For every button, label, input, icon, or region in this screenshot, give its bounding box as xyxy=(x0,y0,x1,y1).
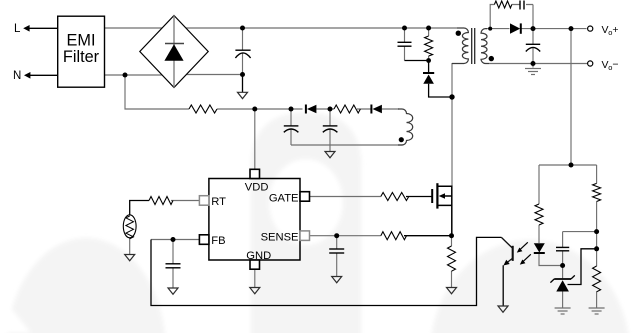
opto LED resistor xyxy=(535,204,543,225)
node vdd cap1 xyxy=(289,107,294,112)
wire EMI to bridge top xyxy=(105,27,163,29)
bridge rectifier xyxy=(140,16,208,88)
svg-text:EMI: EMI xyxy=(67,32,96,50)
sense line resistor xyxy=(381,232,407,240)
wire clamp cap leads xyxy=(404,28,406,61)
controller IC box xyxy=(209,179,300,261)
ground (sense resistor) xyxy=(447,288,457,294)
node TL431 cathode xyxy=(560,263,565,268)
wire EMI to bridge bottom xyxy=(105,74,162,76)
aux polarity dot xyxy=(399,137,404,142)
clamp capacitor xyxy=(398,42,412,46)
earth ground (output cap) xyxy=(525,69,541,75)
ground (opto emitter) xyxy=(498,306,508,312)
wire gate xyxy=(310,196,381,198)
wire out cap leads xyxy=(532,29,534,68)
ground (FB cap) xyxy=(168,288,178,294)
wire RT xyxy=(130,201,200,255)
wire secondary top xyxy=(486,28,510,30)
svg-text:SENSE: SENSE xyxy=(261,231,299,243)
TL431 shunt regulator xyxy=(550,275,574,282)
wire feedback top rail xyxy=(539,164,597,166)
wire bridge bottom to bulk cap xyxy=(186,74,242,76)
output capacitor xyxy=(526,44,540,51)
wire RT resistor to thermistor xyxy=(130,201,149,215)
aux winding xyxy=(398,109,413,145)
wire snubber xyxy=(490,5,533,29)
aux diode D2 xyxy=(370,105,372,114)
svg-text:+: + xyxy=(612,24,618,36)
aux resistor xyxy=(334,105,360,113)
svg-text:FB: FB xyxy=(211,235,225,247)
wire bulk cap leads xyxy=(242,28,244,75)
EMI filter box xyxy=(58,16,105,87)
ground (sense cap) xyxy=(332,277,342,283)
wire FB loop to opto collector xyxy=(151,237,501,305)
divider resistor upper xyxy=(593,183,601,201)
ground (IC GND pin) xyxy=(250,288,260,294)
wire Vo- rail xyxy=(489,63,587,65)
earth ground (TL431) xyxy=(555,308,571,314)
current sense resistor xyxy=(448,246,456,271)
svg-text:N: N xyxy=(13,70,21,82)
transformer core xyxy=(472,28,475,64)
sense filter capacitor xyxy=(329,249,344,253)
svg-text:−: − xyxy=(612,58,618,70)
node N-startup xyxy=(123,73,128,78)
wire VDD drop xyxy=(254,109,256,169)
wire comp cap xyxy=(563,232,597,266)
primary polarity dot xyxy=(456,31,461,36)
pin GATE xyxy=(300,192,310,202)
node feedback rail xyxy=(569,163,574,168)
svg-text:Filter: Filter xyxy=(63,48,100,66)
terminal Vo- xyxy=(588,61,593,66)
svg-text:GND: GND xyxy=(246,250,271,262)
pin SENSE xyxy=(300,231,310,241)
wire divider xyxy=(596,165,598,308)
secondary polarity dot xyxy=(489,56,494,61)
RT thermistor xyxy=(123,215,136,238)
svg-text:VDD: VDD xyxy=(245,182,269,194)
wire bridge output top rail xyxy=(186,27,457,29)
ground (bulk cap) xyxy=(238,92,248,98)
ground (thermistor) xyxy=(125,255,135,261)
node clamp res top xyxy=(426,26,431,31)
node snubber left xyxy=(488,27,492,31)
wire out diode to Vo+ xyxy=(522,28,587,30)
RT resistor xyxy=(149,197,173,205)
snubber resistor xyxy=(494,1,511,8)
terminal Vo+ xyxy=(588,26,593,31)
node divider comp xyxy=(594,229,599,234)
vdd capacitor C1 xyxy=(284,126,299,132)
watermark background shapes (decorative) xyxy=(0,0,1,1)
wire aux chain xyxy=(316,108,399,110)
wire opto emitter xyxy=(502,265,504,305)
pin VDD xyxy=(250,169,260,178)
wire clamp join bar to diode xyxy=(405,61,429,73)
wire sense xyxy=(310,235,381,237)
wire FB cap leads xyxy=(172,240,174,288)
wire bulk cap to ground xyxy=(242,75,244,93)
wire gate resistor to MOSFET xyxy=(406,196,432,198)
wire N lead xyxy=(29,74,58,76)
wire vdd cap2 leads xyxy=(329,109,331,145)
wire FB to cap node xyxy=(151,239,199,241)
wire aux bottom rail xyxy=(291,145,404,151)
input terminal N arrow xyxy=(24,72,30,79)
node clamp cap top xyxy=(402,26,407,31)
wire sense cap leads xyxy=(336,236,338,276)
vdd capacitor C2 xyxy=(323,126,338,132)
optocoupler transistor xyxy=(501,237,512,263)
wire sense resistor leads xyxy=(451,236,453,287)
opto light arrow 2 xyxy=(523,254,531,262)
MOSFET Q1 xyxy=(432,183,452,236)
aux diode D1 xyxy=(305,105,307,114)
node drain junction xyxy=(449,94,454,99)
ground (aux) xyxy=(325,152,335,158)
opto light arrow 1 xyxy=(520,242,528,250)
clamp resistor xyxy=(425,36,433,56)
wire vdd cap1 leads xyxy=(290,109,292,145)
node FB cap xyxy=(171,237,176,242)
wire IC gnd xyxy=(254,270,256,288)
transformer primary winding xyxy=(452,28,468,64)
wire L lead xyxy=(29,27,58,29)
clamp diode xyxy=(423,72,434,74)
FB capacitor xyxy=(166,264,181,268)
wire primary bottom to drain xyxy=(451,63,453,186)
node out diode cathode xyxy=(531,26,536,31)
wire startup resistor to VDD node xyxy=(217,108,303,110)
node bulk cap bottom xyxy=(240,72,245,77)
node divider ref xyxy=(594,246,599,251)
pin RT xyxy=(199,196,209,206)
bulk capacitor xyxy=(235,50,250,58)
wire Vo+ to feedback xyxy=(570,29,572,165)
node Vo+ tap xyxy=(569,26,574,31)
earth ground (divider) xyxy=(589,308,605,314)
node vdd cap2 xyxy=(328,107,333,112)
pin GND xyxy=(250,260,260,269)
wire TL431 ref xyxy=(568,249,597,285)
snubber capacitor xyxy=(520,1,524,10)
node clamp RC bottom xyxy=(426,58,431,63)
node sense cap xyxy=(334,233,339,238)
startup resistor xyxy=(189,105,217,113)
wire clamp resistor leads xyxy=(428,28,430,61)
opto LED xyxy=(534,243,545,252)
input terminal L arrow xyxy=(23,25,29,32)
node out cap bottom xyxy=(531,61,536,66)
node VDD xyxy=(252,107,257,112)
node bulk cap top xyxy=(240,26,245,31)
wire clamp diode to drain node xyxy=(429,84,452,97)
wire sense resistor to source node xyxy=(404,235,452,237)
svg-text:GATE: GATE xyxy=(269,192,299,204)
pin FB xyxy=(199,235,209,245)
wire opto LED branch xyxy=(539,165,563,266)
compensation capacitor xyxy=(556,247,569,250)
node MOSFET source xyxy=(449,233,454,238)
wire TL431 leads xyxy=(562,266,564,308)
svg-text:RT: RT xyxy=(211,196,226,208)
wire startup line from N xyxy=(125,75,189,109)
transformer secondary winding xyxy=(481,29,489,64)
svg-text:L: L xyxy=(14,23,21,35)
output diode xyxy=(510,23,520,33)
gate resistor xyxy=(381,193,409,201)
divider resistor lower xyxy=(593,266,601,292)
